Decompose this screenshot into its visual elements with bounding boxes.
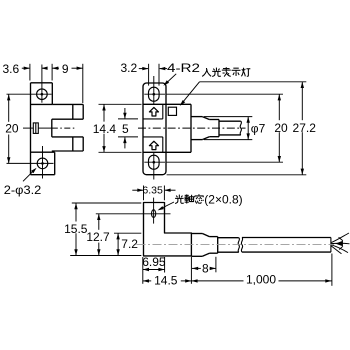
left view: plate top edge <box>31 82 53 84</box>
svg-text:1,000: 1,000 <box>246 273 276 287</box>
bottom view: optical window oval <box>96 198 171 224</box>
svg-text:14.5: 14.5 <box>154 273 178 287</box>
bottom view: centerline <box>137 243 335 245</box>
dimension 3.2 <box>120 61 167 86</box>
svg-text:6.95: 6.95 <box>142 255 166 269</box>
left view: plate right edge upper <box>51 83 53 105</box>
dimension 20 (front view) <box>167 94 288 162</box>
svg-text:2-φ3.2: 2-φ3.2 <box>4 183 42 197</box>
dimension 27.2 <box>167 82 317 175</box>
front view: upper window box <box>143 104 163 119</box>
left view: lower arm bottom edge <box>52 150 83 152</box>
svg-text:20: 20 <box>274 121 288 135</box>
dimension 6.95 <box>142 255 166 284</box>
bottom view: cable with break <box>218 238 331 253</box>
front view: mounting plate rounded rect <box>143 83 166 175</box>
left view: side window <box>33 123 38 133</box>
left view: bottom tab right edge <box>54 152 56 175</box>
left view: upper arm tip right edge <box>82 104 84 119</box>
bottom view: cable bushing <box>191 234 217 257</box>
left view: upper arm tip step line <box>72 104 74 119</box>
front view: lower optical axis arrow mark <box>149 141 158 149</box>
dimension 15.5 <box>64 203 141 256</box>
svg-text:3.2: 3.2 <box>120 61 137 75</box>
svg-text:6.35: 6.35 <box>142 185 163 197</box>
left view: lower arm top edge <box>52 136 83 138</box>
dimension 3.6 lines <box>22 64 48 81</box>
front view: cable <box>219 121 241 135</box>
svg-text:φ7: φ7 <box>251 121 266 135</box>
label kouzikusou (optical axis window) <box>158 192 243 210</box>
left view: top mounting hole <box>7 65 52 103</box>
label 2-phi3.2 <box>4 168 42 197</box>
svg-text:4-R2: 4-R2 <box>167 61 200 75</box>
front view: bottom slot <box>144 152 165 179</box>
label indicator underline / 27.2 top extension <box>200 81 307 83</box>
svg-text:8: 8 <box>202 262 209 276</box>
front view: cable bushing <box>191 117 219 140</box>
svg-text:3.6: 3.6 <box>2 62 19 76</box>
dimension 20 (left view height) <box>5 94 19 163</box>
left view: bottom tab top line <box>31 151 55 153</box>
front view: housing bottom edge <box>143 151 191 153</box>
front view: lower window box <box>143 137 163 152</box>
left view: upper arm top edge <box>52 103 83 105</box>
front view: top slot <box>144 76 165 104</box>
dimension phi7 <box>204 117 266 140</box>
svg-text:5: 5 <box>122 122 129 136</box>
bottom view: frayed wire ends <box>331 233 349 254</box>
svg-text:14.4: 14.4 <box>93 122 117 136</box>
left view: bottom mounting hole <box>7 146 54 179</box>
svg-text:9: 9 <box>62 62 69 76</box>
front view: centerline <box>138 127 246 129</box>
dimension 14.4 <box>93 104 142 152</box>
front view: LED indicator square <box>168 107 176 115</box>
svg-text:20: 20 <box>5 122 19 136</box>
svg-text:27.2: 27.2 <box>293 121 317 135</box>
svg-text:7.2: 7.2 <box>121 237 138 251</box>
dimension 5 <box>118 108 138 148</box>
left view: lower arm tip right edge <box>82 137 84 151</box>
dimension 8 <box>192 257 216 276</box>
left view: optical centerline <box>23 127 76 129</box>
left view: top tab bottom line <box>31 103 53 105</box>
left view: plate left edge <box>30 83 32 175</box>
bottom view: body outline <box>144 203 192 256</box>
label indicator leader <box>180 82 200 106</box>
label 4-R2 <box>163 61 200 86</box>
left view: lower arm tip step line <box>72 137 74 151</box>
left view: upper arm bottom edge <box>52 118 83 120</box>
left view: slot closed end <box>51 119 53 137</box>
left view: plate bottom edge <box>31 174 55 176</box>
front view: housing right edge <box>190 104 192 152</box>
dimension 12.7 <box>86 214 110 256</box>
dimension 9 lines <box>52 64 83 103</box>
dimension 14.5 <box>143 257 192 287</box>
svg-text:15.5: 15.5 <box>64 222 88 236</box>
svg-text:(2×0.8): (2×0.8) <box>204 192 242 206</box>
dimension 6.35 <box>132 185 175 201</box>
dimension 7.2 <box>114 233 141 255</box>
front view: housing top edge <box>143 103 191 105</box>
front view: upper optical axis arrow mark <box>149 107 158 116</box>
svg-text:12.7: 12.7 <box>86 230 110 244</box>
label nyuukou hyoujitou (light indicator) <box>202 67 250 76</box>
dimension 1,000 <box>191 254 332 287</box>
